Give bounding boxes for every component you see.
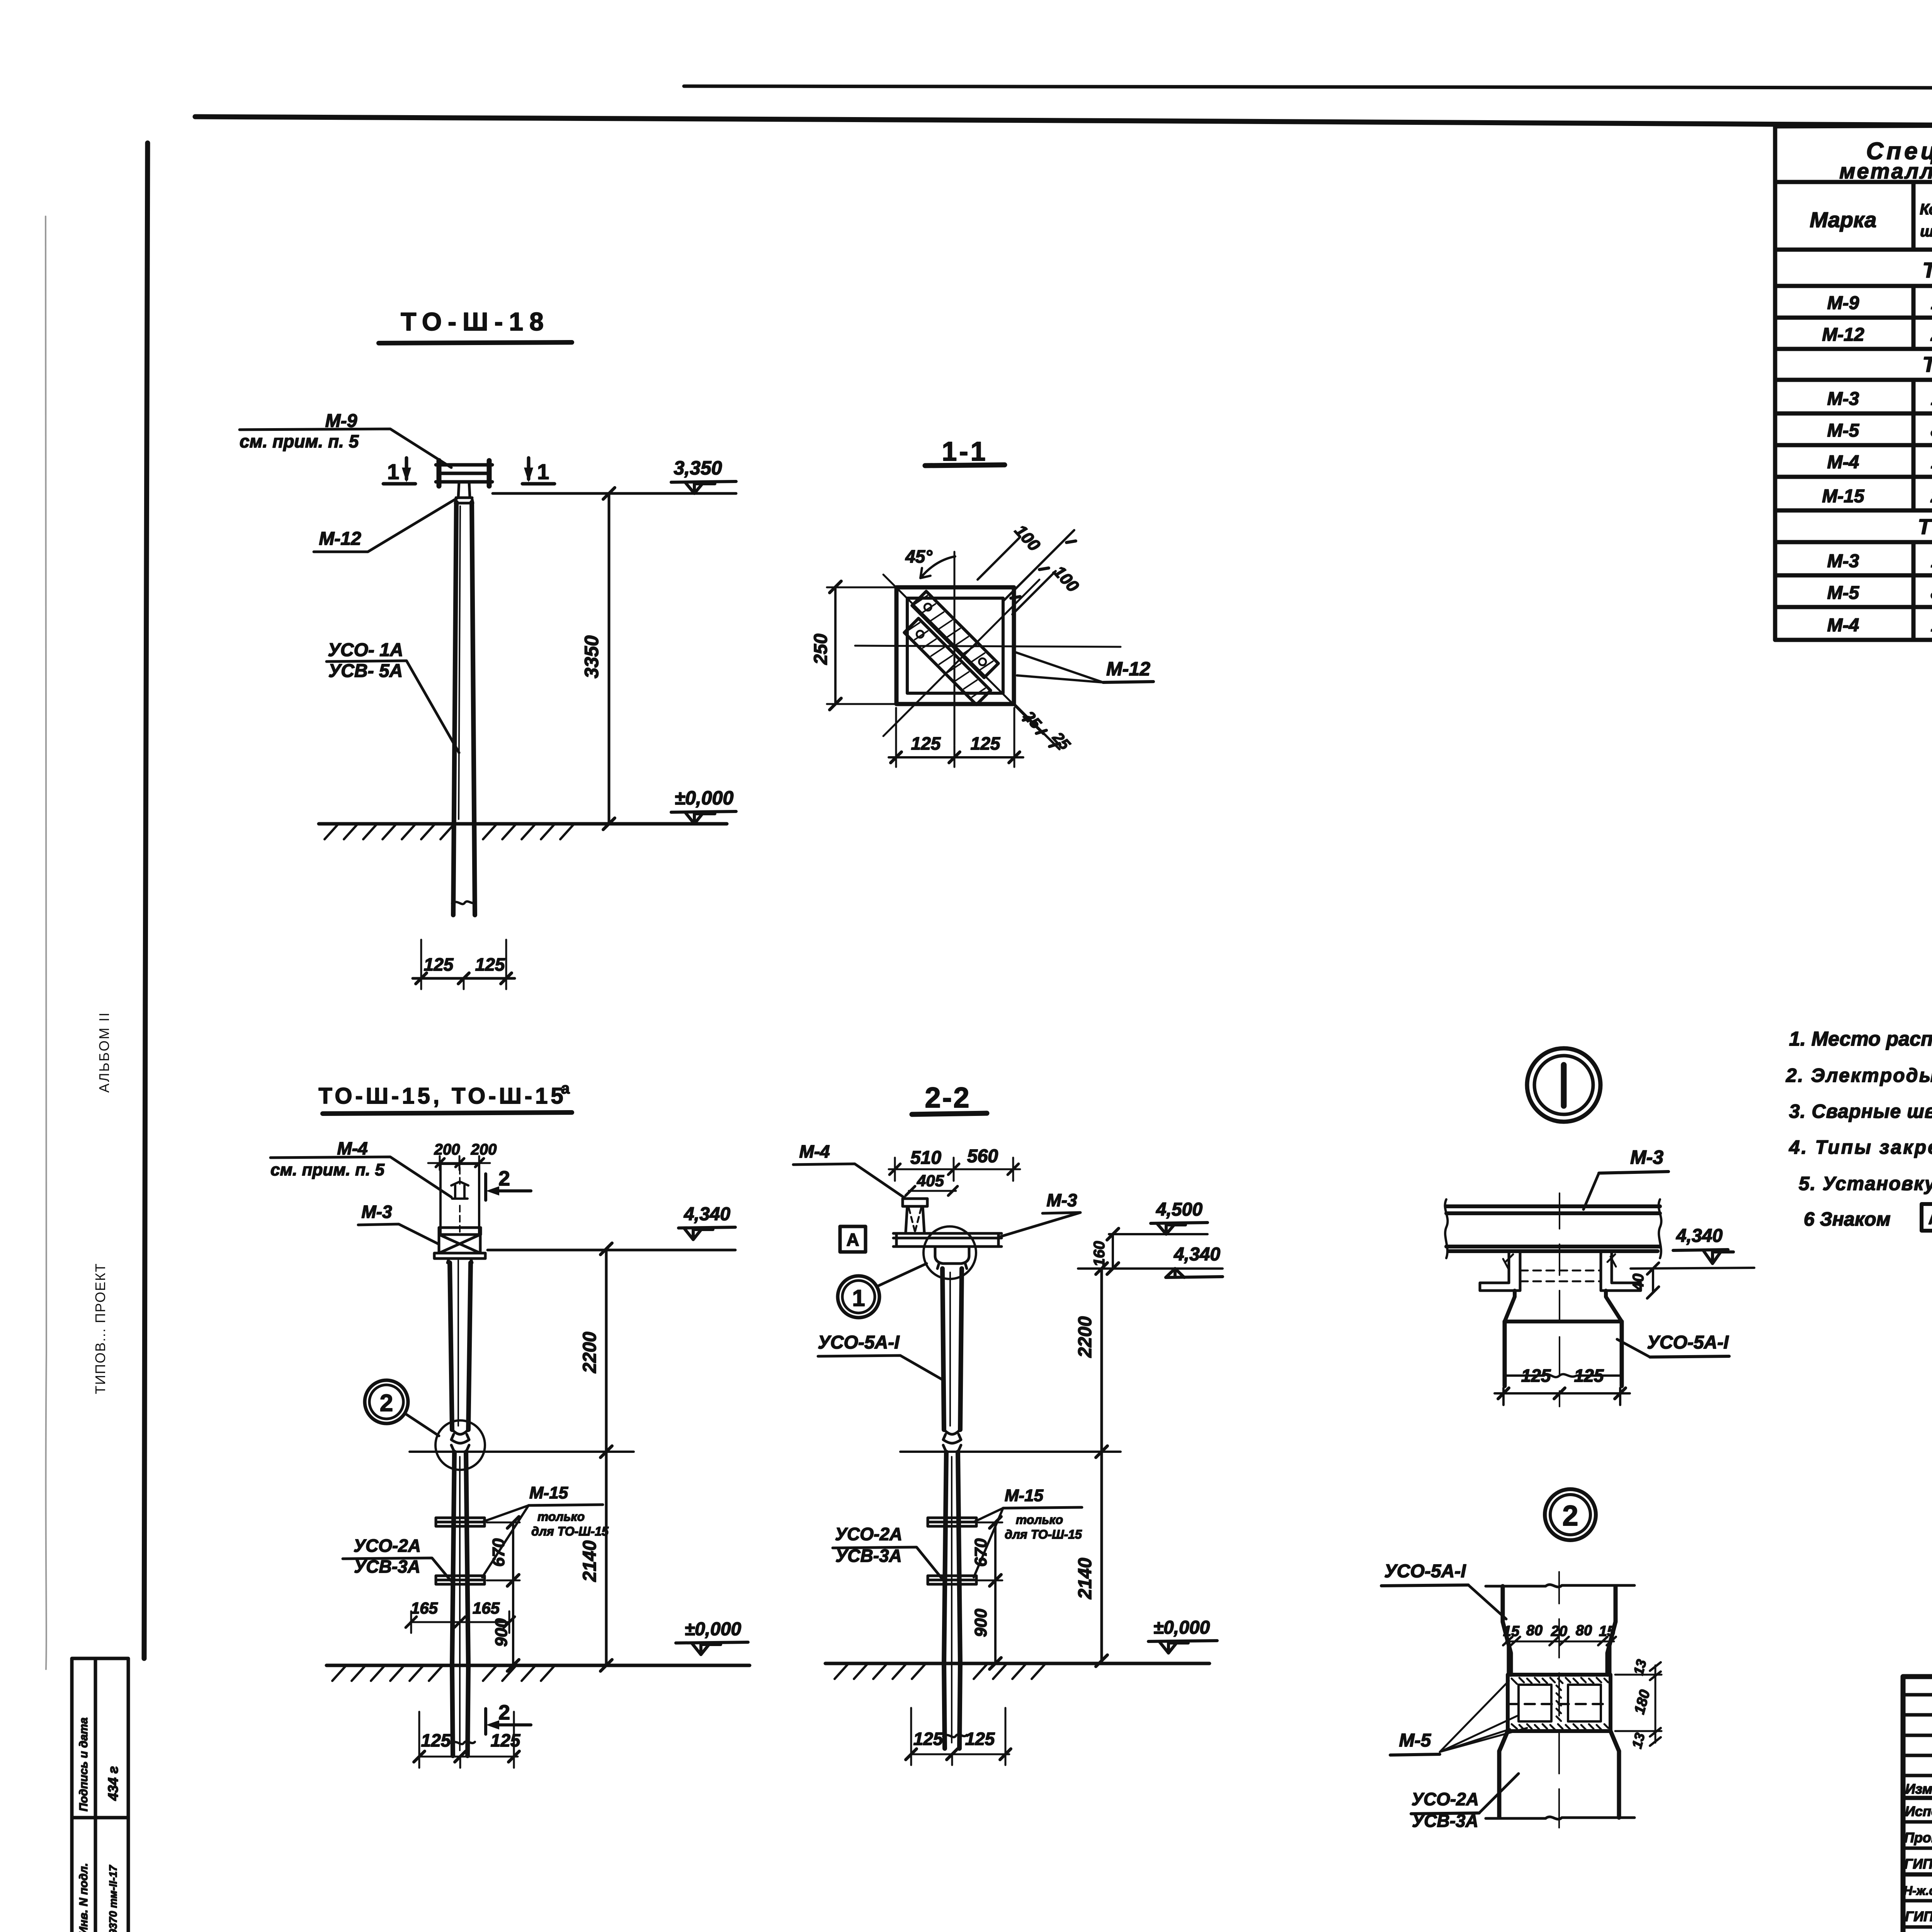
column shoulders (d1) — [1505, 1291, 1622, 1321]
svg-text:125: 125 — [913, 1729, 944, 1749]
М-4 stub dashed projection — [909, 1208, 921, 1232]
collar 2 М-15 — [436, 1576, 485, 1584]
svg-text:А: А — [846, 1230, 859, 1250]
dim 670 — [512, 1522, 514, 1580]
ground line (22) — [825, 1662, 1209, 1665]
svg-text:М-15: М-15 — [1005, 1486, 1044, 1505]
joint box (d2) — [1508, 1675, 1611, 1731]
svg-text:2140: 2140 — [1075, 1558, 1095, 1599]
ground hatch (15) right — [483, 1665, 555, 1681]
svg-text:Исполн.: Исполн. — [1905, 1803, 1932, 1819]
svg-text:4. Типы закреплений опор в: 4. Типы закреплений опор в грунте см. ли… — [1789, 1136, 1932, 1158]
svg-text:УСО- 1А: УСО- 1А — [328, 640, 403, 660]
level line 4.500 — [1109, 1233, 1207, 1235]
svg-text:1: 1 — [1931, 551, 1932, 571]
numeral 1 stroke — [1561, 1065, 1567, 1106]
diagonal construction lines — [883, 575, 1043, 736]
svg-text:М-4: М-4 — [1827, 452, 1859, 473]
beam М-3 (22) — [893, 1233, 1002, 1247]
svg-text:для ТО-Ш-15: для ТО-Ш-15 — [1005, 1527, 1082, 1541]
svg-text:М-5: М-5 — [1827, 420, 1860, 441]
svg-text:125: 125 — [424, 954, 454, 975]
svg-text:Инв. N подл.: Инв. N подл. — [77, 1863, 90, 1932]
leader М-9 — [240, 429, 451, 468]
ground line — [319, 822, 727, 826]
svg-text:2: 2 — [380, 1390, 393, 1417]
svg-text:УСО-2А: УСО-2А — [835, 1524, 902, 1544]
left frame border — [144, 143, 148, 1658]
svg-text:ТО-Ш-15: ТО-Ш-15 — [1922, 352, 1932, 376]
pole cap bracket (d1) — [1509, 1251, 1612, 1283]
beam М-3 section (d1) — [1446, 1206, 1660, 1251]
svg-text:125: 125 — [475, 954, 505, 975]
upper column (d2) — [1503, 1586, 1616, 1622]
svg-text:М-5: М-5 — [1399, 1730, 1432, 1751]
joint level line 2-2 — [900, 1451, 1121, 1453]
chamfer to joint (d2) — [1503, 1622, 1616, 1675]
ground hatch (15) left — [332, 1665, 443, 1681]
svg-text:УСО-5А-I: УСО-5А-I — [818, 1332, 900, 1353]
joint grout hatch — [1512, 1678, 1608, 1684]
svg-text:±0,000: ±0,000 — [685, 1619, 742, 1639]
joint waist 2-2 — [943, 1430, 961, 1452]
lower column (d2) — [1499, 1751, 1619, 1818]
svg-text:2: 2 — [498, 1701, 510, 1724]
svg-text:М-3: М-3 — [361, 1202, 392, 1222]
dim 3350 vertical — [608, 493, 611, 824]
joint waist — [451, 1430, 469, 1452]
svg-text:6 Знаком: 6 Знаком — [1804, 1208, 1891, 1230]
svg-text:ТО-Ш-15, ТО-Ш-15: ТО-Ш-15, ТО-Ш-15 — [318, 1083, 566, 1109]
svg-text:560: 560 — [967, 1146, 998, 1167]
svg-text:2: 2 — [1930, 325, 1932, 345]
svg-text:М-5: М-5 — [1827, 583, 1860, 603]
svg-text:250: 250 — [811, 634, 831, 665]
svg-text:а: а — [561, 1080, 570, 1097]
lower column 2-2 — [944, 1452, 960, 1748]
svg-text:1: 1 — [1931, 615, 1932, 636]
svg-text:200: 200 — [434, 1141, 460, 1158]
svg-text:125: 125 — [1521, 1366, 1551, 1386]
axis horizontal — [855, 646, 1121, 647]
pole inner taper line — [459, 506, 460, 819]
bottom edge with break (d2) — [1486, 1817, 1634, 1819]
svg-text:см. прим. п. 5: см. прим. п. 5 — [270, 1160, 384, 1179]
dim 125 125 bottom — [896, 708, 1014, 767]
ground hatch left — [325, 824, 454, 839]
dim line 2200 2140 — [605, 1249, 608, 1665]
svg-text:ГИП: ГИП — [1905, 1908, 1932, 1924]
svg-text:165: 165 — [473, 1599, 500, 1617]
svg-text:125: 125 — [1574, 1366, 1604, 1386]
svg-text:М-12: М-12 — [1822, 325, 1864, 345]
svg-text:М-3: М-3 — [1046, 1190, 1077, 1210]
collar 1 М-15 — [436, 1518, 485, 1526]
svg-text:металлоконструкций: металлоконструкций — [1839, 159, 1932, 183]
svg-text:УСО-2А: УСО-2А — [1412, 1789, 1479, 1809]
svg-text:2: 2 — [1930, 486, 1932, 507]
level line 4.340 (d1) — [1631, 1268, 1754, 1269]
svg-text:1: 1 — [1931, 389, 1932, 409]
dim 13 180 13 — [1615, 1665, 1662, 1743]
dim 900 — [512, 1580, 514, 1665]
lower column УСО-2А — [452, 1452, 468, 1756]
top border main line — [195, 117, 1932, 129]
cap М-9 — [436, 465, 492, 482]
svg-text:1: 1 — [852, 1285, 865, 1311]
elevation flag 3.350 — [685, 482, 715, 493]
hidden dashed joint (d1) — [1520, 1270, 1601, 1281]
svg-text:ТО-Ш-18: ТО-Ш-18 — [1922, 258, 1932, 282]
chamfer below joint (d2) — [1499, 1731, 1619, 1751]
leader УСО-1А — [327, 661, 459, 753]
svg-text:М-12: М-12 — [1106, 658, 1150, 680]
dim 900 (22) — [994, 1580, 997, 1663]
centre axis (d2) — [1558, 1572, 1560, 1828]
upper column УСО-5А-I — [450, 1263, 471, 1430]
strap bar М-12 lower — [904, 618, 990, 704]
svg-text:±0,000: ±0,000 — [675, 787, 734, 809]
elevation flag 0.000 — [685, 812, 715, 824]
svg-text:8: 8 — [1931, 583, 1932, 603]
svg-text:Н-ж.стр.отд: Н-ж.стр.отд — [1903, 1884, 1932, 1898]
svg-text:±0,000: ±0,000 — [1153, 1617, 1210, 1638]
svg-text:1: 1 — [387, 459, 399, 484]
svg-text:4,500: 4,500 — [1156, 1199, 1202, 1220]
svg-text:ГИП (стр): ГИП (стр) — [1904, 1856, 1932, 1872]
pole УСО-1А УСВ-5А — [453, 502, 475, 915]
svg-text:2140: 2140 — [580, 1540, 600, 1582]
svg-text:см. прим. п. 5: см. прим. п. 5 — [240, 431, 359, 451]
svg-text:ТО-Ш-15: ТО-Ш-15 — [1918, 514, 1932, 539]
inner square — [907, 598, 1003, 693]
svg-text:шт.: шт. — [1920, 223, 1932, 240]
circled 2 callout — [365, 1380, 408, 1423]
dim 2200 2140 (22) — [1100, 1269, 1103, 1661]
title block grid — [1903, 1677, 1932, 1932]
level line 4.340 — [488, 1249, 735, 1252]
svg-text:М-15: М-15 — [1822, 486, 1865, 507]
box А mark — [840, 1226, 866, 1252]
svg-text:125: 125 — [491, 1730, 521, 1750]
svg-text:М-3: М-3 — [1630, 1146, 1663, 1168]
ground hatch right — [483, 824, 574, 839]
svg-text:Проверил: Проверил — [1904, 1830, 1932, 1845]
svg-text:для ТО-Ш-15: для ТО-Ш-15 — [531, 1524, 609, 1538]
ground hatch (22) — [835, 1663, 926, 1679]
svg-text:2200: 2200 — [1075, 1316, 1095, 1358]
pole top cup — [935, 1247, 969, 1269]
svg-text:4,340: 4,340 — [1173, 1244, 1220, 1265]
svg-text:2: 2 — [1562, 1500, 1578, 1532]
svg-text:80: 80 — [1576, 1622, 1592, 1639]
svg-text:только: только — [1016, 1513, 1063, 1527]
joint dashed mid line — [1508, 1703, 1611, 1705]
top edge with break (d2) — [1486, 1585, 1634, 1587]
svg-text:Изм: Изм — [1905, 1781, 1932, 1797]
svg-text:9370 тм-II-17: 9370 тм-II-17 — [107, 1865, 119, 1932]
svg-text:3350: 3350 — [581, 635, 602, 678]
svg-text:Кол.: Кол. — [1920, 201, 1932, 218]
axis vertical — [954, 552, 956, 745]
centre axis (d1) — [1559, 1193, 1560, 1406]
svg-text:1: 1 — [1931, 452, 1932, 473]
weld marks (d1) — [1503, 1254, 1616, 1269]
svg-text:670: 670 — [971, 1538, 990, 1567]
svg-text:М-4: М-4 — [799, 1141, 830, 1162]
strap bar М-12 upper — [912, 591, 998, 677]
circled 1 big — [1527, 1048, 1600, 1122]
dim 25 25 diagonal — [1014, 704, 1060, 749]
connector М-12 piece — [455, 482, 473, 503]
svg-text:1: 1 — [537, 459, 549, 484]
svg-text:2200: 2200 — [580, 1332, 600, 1373]
inventory corner table — [72, 1658, 128, 1932]
svg-text:125: 125 — [971, 733, 1001, 753]
svg-text:5. Установку марок М-4, М-9: 5. Установку марок М-4, М-9 см. листы со… — [1799, 1173, 1932, 1194]
column body (d1) — [1505, 1321, 1622, 1386]
svg-text:900: 900 — [971, 1609, 990, 1637]
svg-text:только: только — [537, 1510, 585, 1524]
svg-text:Марка: Марка — [1810, 207, 1877, 232]
detail circle around cup — [923, 1226, 976, 1279]
level line 4.340 (22) — [1078, 1267, 1223, 1270]
dim 250 left — [834, 587, 837, 704]
svg-text:3,350: 3,350 — [673, 457, 722, 479]
top level line — [493, 492, 736, 495]
svg-text:2-2: 2-2 — [925, 1082, 971, 1114]
svg-text:М-12: М-12 — [319, 529, 361, 549]
svg-text:А: А — [1928, 1209, 1932, 1228]
diagonal dim 100 100 — [978, 530, 1074, 614]
svg-text:М-9: М-9 — [1827, 293, 1859, 313]
svg-text:УСО-2А: УСО-2А — [354, 1536, 421, 1556]
svg-text:УСО-5А-I: УСО-5А-I — [1384, 1561, 1466, 1582]
svg-text:45°: 45° — [905, 546, 932, 566]
ground line (15) — [327, 1664, 750, 1667]
svg-text:125: 125 — [965, 1729, 995, 1749]
dim 160 — [1112, 1234, 1114, 1269]
beam end breaks — [1445, 1199, 1662, 1258]
pole break bottom (22) — [943, 1735, 967, 1737]
circled 2 big — [1545, 1489, 1596, 1540]
column break (d1) — [1505, 1374, 1622, 1377]
paper fold faint line left — [45, 216, 48, 1669]
dim 670 (22) — [994, 1522, 997, 1580]
leader circled 2 — [405, 1413, 439, 1436]
dim 40 (d1) — [1652, 1269, 1654, 1293]
svg-text:АЛЬБОМ II: АЛЬБОМ II — [96, 1012, 112, 1093]
svg-text:1. Место расположения опоры: 1. Место расположения опоры см. лист. — [1789, 1028, 1932, 1050]
svg-text:Подпись и дата: Подпись и дата — [77, 1718, 90, 1811]
upper column 2-2 — [942, 1269, 962, 1430]
svg-text:510: 510 — [910, 1148, 941, 1168]
svg-text:1-1: 1-1 — [942, 436, 988, 466]
svg-text:УСВ- 5А: УСВ- 5А — [328, 661, 403, 681]
svg-text:2. Электроды для сварных швов: 2. Электроды для сварных швов применять … — [1786, 1065, 1932, 1086]
pole break squiggle — [452, 901, 476, 904]
svg-text:165: 165 — [411, 1599, 438, 1617]
leaders М-15 — [482, 1505, 529, 1577]
svg-text:8: 8 — [1931, 420, 1932, 441]
mast М-4 — [440, 1164, 479, 1233]
svg-text:80: 80 — [1526, 1622, 1543, 1639]
joint level line — [410, 1451, 634, 1453]
svg-text:ТИПОВ... ПРОЕКТ: ТИПОВ... ПРОЕКТ — [92, 1263, 108, 1394]
left spec table grid — [1775, 125, 1932, 929]
svg-text:125: 125 — [911, 733, 941, 753]
circled 1 callout (22) — [838, 1276, 879, 1318]
svg-text:М-4: М-4 — [337, 1138, 367, 1158]
top border upper line — [684, 86, 1932, 89]
svg-text:М-3: М-3 — [1827, 389, 1859, 409]
svg-text:4,340: 4,340 — [684, 1204, 730, 1225]
collars 2-2 — [928, 1518, 976, 1526]
svg-text:200: 200 — [471, 1141, 497, 1158]
svg-text:ТО-Ш-18: ТО-Ш-18 — [401, 307, 550, 336]
svg-text:М-3: М-3 — [1827, 551, 1859, 571]
svg-text:125: 125 — [421, 1730, 451, 1750]
svg-text:405: 405 — [917, 1172, 944, 1190]
svg-text:4,340: 4,340 — [1676, 1226, 1723, 1246]
svg-text:40: 40 — [1630, 1274, 1647, 1291]
pole break bottom (15) — [451, 1742, 475, 1744]
svg-text:М-4: М-4 — [1827, 615, 1859, 636]
svg-text:670: 670 — [489, 1538, 508, 1567]
leader М-12 — [314, 498, 458, 552]
svg-text:434 г: 434 г — [105, 1766, 121, 1801]
М-4 stub top — [903, 1199, 927, 1232]
svg-text:2: 2 — [498, 1167, 510, 1190]
joint detail circle — [435, 1420, 485, 1470]
outer square — [896, 587, 1014, 704]
svg-text:3. Сварные швы выполнять по: 3. Сварные швы выполнять по наименьшей т… — [1789, 1100, 1932, 1122]
crossarm М-3 box — [439, 1228, 481, 1235]
svg-text:1: 1 — [1931, 293, 1932, 313]
elevation flag 4.340 — [684, 1228, 713, 1240]
angle arc — [920, 556, 955, 578]
svg-text:УСО-5А-I: УСО-5А-I — [1647, 1332, 1729, 1353]
svg-text:М-15: М-15 — [529, 1483, 568, 1502]
joint inner windows — [1519, 1685, 1551, 1721]
